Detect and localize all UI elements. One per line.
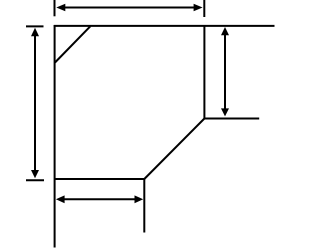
bottom edge of left arm <box>55 178 145 180</box>
dimension D3 right side depth: shaft <box>224 32 226 112</box>
dimension D1 top width: ticks <box>55 0 205 17</box>
dimension D2 left height: ticks <box>26 26 44 180</box>
front diagonal edge <box>144 119 204 180</box>
dimension D2 arrowhead down <box>31 170 39 178</box>
right vertical edge <box>203 26 205 119</box>
right horizontal edge <box>204 118 260 120</box>
dimension D1 arrowhead right <box>194 4 203 11</box>
dimension D4 arrowhead left <box>56 195 65 203</box>
dimension D1 top width: shaft <box>62 7 197 9</box>
top edge <box>54 25 275 27</box>
dimension D2 left height: shaft <box>34 33 36 172</box>
dimension D2 arrowhead up <box>31 28 39 36</box>
dimension D4 bottom width: shaft <box>61 198 138 200</box>
dimension D1 arrowhead left <box>56 4 65 11</box>
left edge <box>54 25 56 248</box>
dimension D3 arrowhead up <box>221 27 229 35</box>
dimension D4 arrowhead right <box>135 195 144 203</box>
extension line below front corner <box>143 179 145 233</box>
dimension D3 arrowhead down <box>221 108 229 116</box>
corner chamfer diagonal <box>55 26 90 62</box>
